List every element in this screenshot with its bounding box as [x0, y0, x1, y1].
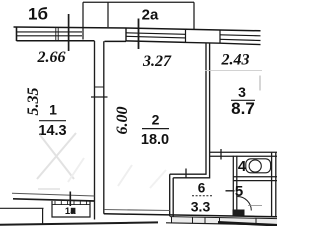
balcony 2a box: [83, 2, 194, 39]
railing strip wash: [172, 218, 277, 224]
bottom wall under room2 inner line: [104, 209, 170, 212]
svg-text:2.43: 2.43: [221, 52, 250, 69]
railing dark segment: [218, 222, 277, 225]
balcony 1a: [52, 201, 90, 217]
dimension tick x69: [68, 14, 70, 51]
faint fold line right: [205, 70, 262, 72]
1a dark blob: [71, 208, 76, 214]
black door sill bathroom: [233, 210, 245, 216]
bottom wall main line: [104, 214, 277, 217]
svg-text:1б: 1б: [28, 5, 48, 24]
window W3 room3: [220, 35, 261, 45]
svg-text:2: 2: [152, 112, 160, 128]
svg-text:3.27: 3.27: [142, 53, 172, 70]
room2 fraction bar: [142, 128, 169, 130]
door leaf faint: [248, 205, 262, 207]
svg-text:6.00: 6.00: [114, 107, 131, 135]
exterior wall top edge: [14, 27, 261, 31]
dimension tick x138.5: [138, 19, 140, 50]
room6 dashed bar: [192, 195, 212, 197]
svg-text:3.3: 3.3: [191, 198, 211, 214]
railing ticks: [172, 217, 257, 225]
wall top of bathroom: [210, 152, 277, 156]
step wall tick: [185, 169, 187, 179]
svg-text:14.3: 14.3: [38, 123, 66, 139]
dimension tick 1a: [69, 192, 71, 207]
wall bottom edge mid segment: [105, 40, 127, 42]
tick room5: [226, 190, 235, 192]
faint watermark strokes: [37, 133, 166, 189]
window W2 room2: [126, 28, 186, 42]
svg-text:4: 4: [238, 158, 247, 175]
svg-text:18.0: 18.0: [141, 132, 169, 148]
wall room2-room3 with step: [170, 43, 210, 178]
svg-text:5.35: 5.35: [25, 88, 42, 116]
corridor wall bottom-left: [0, 208, 44, 224]
sink fixture room4: [246, 159, 271, 173]
wall pier: [186, 29, 221, 43]
bottom balcony railing top line: [170, 217, 277, 219]
right exterior wall: [272, 153, 276, 217]
svg-text:8.7: 8.7: [231, 99, 255, 118]
svg-text:6: 6: [198, 180, 206, 195]
railing bottom line: [166, 223, 277, 225]
bathroom left wall: [233, 156, 237, 216]
svg-text:2а: 2а: [142, 7, 159, 24]
sink circle: [249, 160, 261, 172]
tick x221: [220, 149, 222, 160]
room1 bottom wall dark line: [13, 199, 95, 201]
door arc room5: [237, 197, 251, 211]
svg-text:2.66: 2.66: [37, 49, 66, 66]
room1 fraction bar: [39, 120, 66, 122]
faint door line room3: [259, 76, 261, 91]
wall room4-room5: [233, 177, 277, 181]
wall room1-room2: [91, 41, 108, 220]
room6 left wall: [170, 174, 174, 216]
window W1 room1: [17, 27, 95, 41]
bottom-left long dark line: [0, 222, 158, 224]
room1 bottom wall faint top line: [12, 193, 95, 196]
room3 fraction bar: [231, 99, 255, 101]
svg-text:3: 3: [238, 84, 246, 100]
svg-text:1: 1: [49, 102, 57, 118]
